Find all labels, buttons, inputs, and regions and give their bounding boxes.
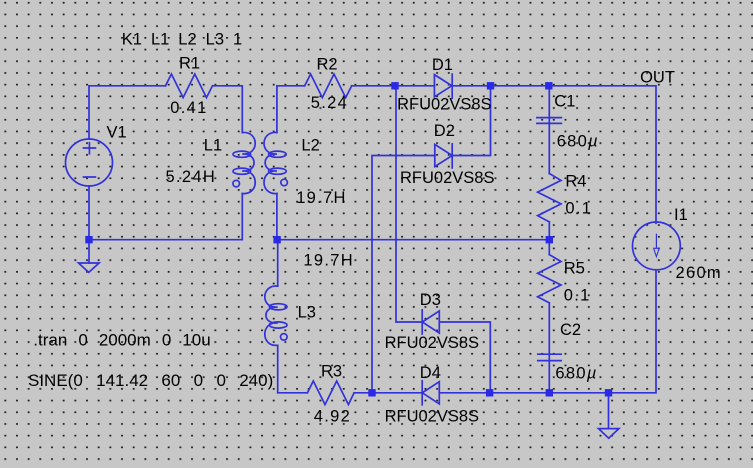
svg-text:R1: R1 xyxy=(179,55,200,73)
svg-text:.tran 0 2000m 0 10u: .tran 0 2000m 0 10u xyxy=(33,331,210,350)
svg-text:19.7H: 19.7H xyxy=(296,189,347,207)
diode D3 xyxy=(422,310,439,334)
svg-text:V1: V1 xyxy=(107,123,127,141)
resistor R3 xyxy=(307,381,354,405)
wire R4 to R5 through mid junction xyxy=(548,222,550,255)
inductor L1 primary winding xyxy=(233,132,255,193)
svg-text:R5: R5 xyxy=(564,260,585,278)
svg-text:260m: 260m xyxy=(676,264,722,282)
svg-text:0.1: 0.1 xyxy=(565,199,592,217)
wire ground stub right xyxy=(608,393,610,429)
junction ground right node xyxy=(605,389,612,396)
wire R1 to corner down to L1 top xyxy=(213,86,243,133)
svg-text:D4: D4 xyxy=(420,364,441,382)
diode D4 xyxy=(422,381,439,405)
voltage source V1 xyxy=(66,139,113,186)
phase dot L1 xyxy=(233,180,240,187)
svg-text:RFU02VS8S: RFU02VS8S xyxy=(397,96,491,114)
junction C2 bottom node xyxy=(546,389,553,396)
svg-text:0.1: 0.1 xyxy=(564,287,591,305)
resistor R1 xyxy=(166,74,213,98)
wire L2 top to R2 xyxy=(277,86,305,133)
junction node A (R2/D1/D3) xyxy=(391,82,398,89)
svg-text:SINE(0 141.42 60 0 0 240): SINE(0 141.42 60 0 0 240) xyxy=(28,371,273,390)
wire L1 bottom to rail xyxy=(89,194,242,240)
junction V1 ground node xyxy=(85,236,92,243)
svg-text:D1: D1 xyxy=(432,56,453,74)
wire V1 top stub xyxy=(88,86,90,139)
ground symbol right xyxy=(599,429,619,439)
phase dot L3 xyxy=(281,334,288,341)
wire node A down to D3 cathode xyxy=(396,86,422,322)
svg-text:L2: L2 xyxy=(301,136,319,154)
svg-text:K1 L1 L2 L3 1: K1 L1 L2 L3 1 xyxy=(122,30,242,48)
wire D3 anode down to bottom rail xyxy=(439,322,490,393)
wire R2 to node A to D1 anode xyxy=(352,85,435,87)
svg-text:680µ: 680µ xyxy=(555,364,597,382)
resistor R2 xyxy=(305,74,352,98)
diode D2 xyxy=(435,144,452,168)
phase dot L2 xyxy=(281,179,288,186)
wire L3 top stub xyxy=(277,240,279,286)
svg-text:L1: L1 xyxy=(204,136,222,154)
svg-text:C2: C2 xyxy=(560,321,581,339)
junction L2/L3 center tap xyxy=(273,236,280,243)
wire R5 to C2 to bottom rail xyxy=(548,303,550,393)
svg-text:RFU02VS8S: RFU02VS8S xyxy=(385,334,479,352)
svg-text:I1: I1 xyxy=(674,206,688,224)
svg-text:4.92: 4.92 xyxy=(314,408,351,426)
resistor R4 xyxy=(538,174,561,222)
wire L2 bottom to mid junction xyxy=(276,194,278,240)
svg-text:D3: D3 xyxy=(420,291,441,309)
junction D3/D4 anode node xyxy=(486,389,493,396)
capacitor C2 xyxy=(538,354,561,360)
junction R3/D4/D2 node xyxy=(368,389,375,396)
capacitor C1 xyxy=(537,118,562,124)
svg-text:5.24: 5.24 xyxy=(311,94,348,112)
inductor L3 secondary winding lower xyxy=(265,286,287,345)
wire D2 cathode up to node B xyxy=(452,86,491,156)
svg-text:5.24H: 5.24H xyxy=(166,168,217,186)
inductor L2 secondary winding upper xyxy=(264,132,287,193)
wire top-left rail from V1 to R1 xyxy=(89,85,166,87)
wire V1 bottom stub xyxy=(88,186,90,240)
wire D2 anode branch from bottom junction xyxy=(372,156,435,393)
svg-text:D2: D2 xyxy=(434,122,455,140)
svg-text:R3: R3 xyxy=(321,363,342,381)
ground symbol left xyxy=(79,263,100,272)
svg-text:0.41: 0.41 xyxy=(170,99,207,117)
junction R4/R5 mid node xyxy=(546,236,553,243)
junction node OUT at C1 xyxy=(545,82,552,89)
current source I1 xyxy=(633,222,681,270)
wire mid rail xyxy=(277,239,549,241)
svg-text:RFU02VS8S: RFU02VS8S xyxy=(385,408,479,426)
wire D4 anode to corner up to I1 bottom xyxy=(439,271,656,393)
wire ground stub left xyxy=(88,240,90,263)
junction node B (D1/D2 cathodes) xyxy=(487,82,494,89)
svg-text:R2: R2 xyxy=(317,56,338,74)
resistor R5 xyxy=(538,255,561,303)
svg-text:L3: L3 xyxy=(298,303,316,321)
svg-text:R4: R4 xyxy=(565,172,586,190)
svg-text:C1: C1 xyxy=(554,93,575,111)
svg-text:RFU02VS8S: RFU02VS8S xyxy=(400,169,494,187)
wire R3 to junction to D4 cathode xyxy=(354,392,422,394)
svg-text:680µ: 680µ xyxy=(557,133,599,151)
diode D1 xyxy=(434,74,452,98)
svg-text:19.7H: 19.7H xyxy=(303,251,354,269)
wire D1 cathode to OUT corner down to I1 top xyxy=(452,86,656,224)
wire L3 bottom to R3 xyxy=(278,345,308,393)
wire C1 branch vertical xyxy=(548,86,550,174)
svg-text:OUT: OUT xyxy=(640,69,675,87)
